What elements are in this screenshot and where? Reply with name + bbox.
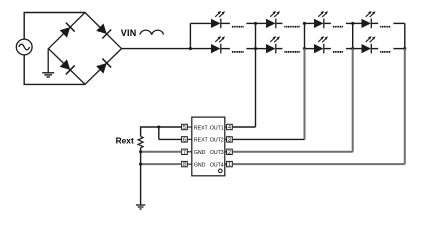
junction: [351, 47, 354, 50]
svg-text:OUT2: OUT2: [210, 138, 224, 144]
LED Dt1 (col 1 top row): [211, 11, 225, 28]
wire: [246, 22, 255, 24]
LED Db2 (col 2 bottom row): [266, 36, 280, 53]
wire: [276, 48, 282, 50]
wire (dashed continuation): [232, 26, 244, 28]
wire: [324, 22, 331, 24]
junction: [303, 47, 306, 50]
wire: [140, 126, 142, 136]
junction: [254, 47, 257, 50]
wire: [256, 48, 267, 50]
wire (dashed continuation): [232, 51, 244, 53]
svg-text:REXT: REXT: [194, 138, 209, 144]
svg-text:4: 4: [228, 125, 231, 131]
junction: [189, 47, 192, 50]
junction: [139, 150, 142, 153]
wire OUT1: [255, 49, 257, 127]
svg-text:OUT3: OUT3: [210, 150, 224, 156]
wire: [221, 48, 230, 50]
wire: [122, 48, 191, 50]
wire: [221, 22, 230, 24]
junction: [139, 163, 142, 166]
wire OUT2: [304, 49, 306, 140]
svg-text:3: 3: [228, 137, 231, 143]
pin 6 (REXT): [182, 137, 192, 144]
pin 1 (OUT4): [225, 161, 233, 168]
svg-text:Rext: Rext: [116, 136, 134, 146]
wire: [352, 23, 354, 48]
wire: [393, 48, 404, 50]
diode D1 (bridge top-left): [59, 23, 75, 39]
wire: [256, 22, 267, 24]
wire: [24, 83, 86, 85]
wire: [158, 127, 160, 139]
wire (dashed continuation): [284, 26, 300, 28]
wire: [305, 48, 315, 50]
resistor Rext: [138, 136, 143, 147]
wire: [255, 23, 257, 48]
wire OUT3: [233, 151, 353, 153]
node VIN bus: [189, 23, 191, 48]
wire: [159, 138, 182, 140]
pin 3 (OUT2): [225, 137, 233, 144]
svg-text:VIN: VIN: [121, 28, 137, 38]
svg-text:1: 1: [228, 162, 231, 168]
wire (dashed continuation): [380, 51, 391, 53]
wire: [141, 126, 182, 128]
wire: [305, 22, 315, 24]
LED Dt4 (col 4 top row): [362, 11, 376, 28]
pin 5 (REXT): [182, 124, 192, 131]
pin 7 (GND): [182, 149, 192, 156]
svg-text:REXT: REXT: [194, 125, 209, 131]
wire OUT3: [352, 49, 354, 152]
pin 8 (GND): [182, 161, 192, 168]
wire (dashed continuation): [284, 51, 300, 53]
wire: [190, 48, 211, 50]
diode D2 (bridge top-right): [95, 23, 111, 39]
wire (dashed continuation): [333, 51, 343, 53]
ground (Rext/GND): [136, 205, 145, 209]
junction: [403, 47, 406, 50]
ic U1 body: [192, 117, 225, 176]
wire: [303, 48, 305, 50]
svg-text:8: 8: [183, 162, 186, 168]
bridge rectifier outline: [49, 13, 122, 85]
wire (dashed continuation): [380, 26, 391, 28]
wire: [353, 22, 362, 24]
wire OUT1: [233, 126, 256, 128]
ac source V1: [16, 39, 32, 55]
svg-text:GND: GND: [194, 162, 206, 168]
wire: [346, 48, 353, 50]
LED Db1 (col 1 bottom row): [211, 36, 225, 53]
wire: [372, 48, 378, 50]
wire: [393, 22, 404, 24]
pin 2 (OUT3): [225, 149, 233, 156]
pin 4 (OUT1): [225, 124, 233, 131]
wire: [276, 22, 282, 24]
wire: [303, 22, 305, 24]
wire: [190, 22, 211, 24]
wire: [246, 48, 255, 50]
wire: [24, 12, 86, 14]
svg-text:7: 7: [183, 150, 186, 156]
LED Db4 (col 4 bottom row): [362, 36, 376, 53]
wire OUT4: [233, 163, 405, 165]
svg-text:5: 5: [183, 125, 186, 131]
wire: [23, 13, 25, 40]
svg-text:OUT4: OUT4: [210, 162, 224, 168]
wire: [23, 55, 25, 85]
wire: [140, 148, 142, 205]
LED Dt2 (col 2 top row): [266, 11, 280, 28]
ic U1 pin-1 indicator: [219, 169, 223, 173]
wire: [304, 23, 306, 48]
ripple symbol: [140, 30, 164, 34]
wire: [141, 163, 182, 165]
wire: [353, 48, 362, 50]
junction: [157, 125, 160, 128]
svg-text:GND: GND: [194, 150, 206, 156]
wire: [346, 22, 353, 24]
wire: [404, 23, 406, 48]
junction: [351, 22, 354, 25]
svg-text:OUT1: OUT1: [210, 125, 224, 131]
LED Db3 (col 3 bottom row): [314, 36, 328, 53]
wire: [324, 48, 331, 50]
svg-text:6: 6: [183, 137, 186, 143]
svg-text:2: 2: [228, 150, 231, 156]
junction: [303, 22, 306, 25]
ground (bridge): [42, 73, 54, 77]
junction: [254, 22, 257, 25]
LED Dt3 (col 3 top row): [314, 11, 328, 28]
wire OUT2: [233, 138, 305, 140]
diode D4 (bridge bottom-right): [95, 59, 111, 75]
wire: [47, 49, 49, 73]
wire: [141, 151, 182, 153]
wire OUT4: [404, 49, 406, 165]
wire: [372, 22, 378, 24]
wire (dashed continuation): [333, 26, 343, 28]
diode D3 (bridge bottom-left): [59, 59, 75, 75]
